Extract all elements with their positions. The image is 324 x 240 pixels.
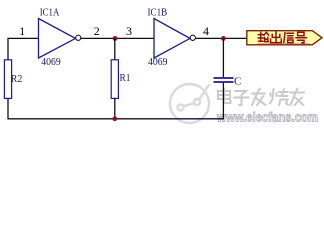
net label flag 输出信号 (output signal port) [247, 31, 322, 45]
wire R2 bottom to bus [7, 98, 9, 118]
capacitor C [214, 76, 242, 88]
电 [218, 89, 231, 104]
wire IC1A output to IC1B input [81, 37, 154, 39]
op-amp U1: inverter IC1A [39, 7, 81, 69]
node junction dot A [113, 36, 118, 41]
友 [290, 89, 304, 106]
svg-text:C: C [234, 76, 241, 88]
输 [258, 32, 269, 41]
wire capacitor bottom to bus [222, 83, 224, 119]
svg-text:IC1A: IC1A [40, 7, 60, 19]
resistor R2 [4, 60, 22, 99]
flag text underline [258, 43, 310, 45]
wire input net: left vertical + top segment to IC1A [8, 38, 39, 60]
svg-text:2: 2 [94, 24, 100, 38]
子 [234, 91, 249, 105]
watermark text 电子发烧友 [218, 89, 304, 106]
op-amp U2: inverter IC1B [148, 7, 196, 69]
svg-text:1: 1 [19, 24, 25, 38]
svg-text:3: 3 [126, 24, 132, 38]
svg-text:www.elecfans.com: www.elecfans.com [216, 111, 318, 125]
svg-text:4069: 4069 [148, 56, 168, 68]
junction dot on bus [112, 116, 117, 121]
svg-text:IC1B: IC1B [148, 7, 168, 19]
svg-text:4: 4 [203, 24, 209, 38]
resistor R1 [111, 60, 130, 99]
烧 [270, 89, 289, 105]
ground bus wire [7, 118, 224, 120]
出 [271, 32, 282, 43]
号 [296, 32, 307, 43]
svg-text:R2: R2 [11, 73, 22, 85]
信 [284, 33, 294, 43]
svg-text:4069: 4069 [41, 56, 61, 68]
wire node B down to capacitor [222, 38, 224, 77]
wire R1 bottom to bus [114, 98, 116, 118]
svg-text:R1: R1 [120, 72, 131, 84]
watermark logo [170, 84, 210, 123]
node junction dot B [221, 36, 226, 41]
wire IC1B output to net label [195, 37, 246, 39]
发 [252, 89, 266, 106]
wire node A down to R1 [114, 38, 116, 60]
